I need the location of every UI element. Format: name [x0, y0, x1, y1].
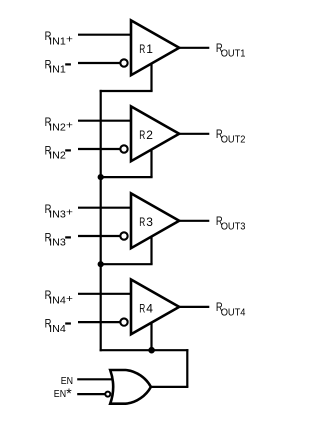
svg-text:IN3: IN3	[49, 237, 66, 249]
label RIN4-	[45, 316, 71, 334]
wire enable stub R1	[150, 64, 152, 91]
junction dot enable R3	[98, 261, 104, 267]
wire gate output vertical	[186, 349, 188, 387]
svg-text:OUT4: OUT4	[221, 306, 246, 318]
svg-text:+: +	[66, 207, 73, 219]
inverting input bubble R4	[120, 318, 127, 325]
wire RIN1+ input	[78, 34, 132, 36]
wire enable stub R3	[150, 237, 152, 265]
label ROUT4	[216, 300, 246, 318]
svg-text:OUT2: OUT2	[221, 133, 246, 145]
svg-text:IN1: IN1	[49, 35, 66, 47]
svg-text:+: +	[66, 34, 73, 46]
label R3	[139, 215, 153, 229]
gate input bubble EN*	[105, 392, 110, 397]
wire enable stub R4	[150, 323, 152, 351]
label ROUT3	[216, 214, 246, 232]
label EN*	[54, 385, 72, 401]
wire ROUT1 output	[179, 47, 209, 49]
receiver R1 triangle	[131, 20, 179, 75]
svg-text:2: 2	[146, 128, 153, 142]
junction dot enable R2	[98, 174, 104, 180]
wire enable horizontal R1	[100, 90, 153, 92]
receiver R2 triangle	[131, 106, 179, 161]
svg-text:+: +	[66, 293, 73, 305]
svg-text:IN4: IN4	[49, 294, 66, 306]
label RIN2+	[45, 115, 73, 133]
inverting input bubble R3	[120, 232, 127, 239]
wire RIN1- input	[78, 62, 121, 64]
label RIN3-	[45, 230, 71, 248]
junction dot enable R4	[148, 347, 155, 354]
wire RIN3- input	[78, 235, 121, 237]
svg-text:+: +	[66, 120, 73, 132]
label R4	[139, 301, 153, 315]
svg-text:IN2: IN2	[49, 150, 66, 162]
svg-text:R: R	[139, 42, 145, 56]
wire RIN2+ input	[78, 120, 132, 122]
svg-text:R: R	[139, 215, 145, 229]
wire RIN3+ input	[78, 207, 132, 209]
wire enable horizontal R4	[100, 349, 189, 351]
svg-text:*: *	[66, 385, 72, 401]
svg-text:IN3: IN3	[49, 208, 66, 220]
svg-text:IN2: IN2	[49, 121, 66, 133]
svg-text:4: 4	[146, 301, 153, 315]
label RIN2-	[45, 143, 71, 161]
label RIN3+	[45, 202, 73, 220]
wire RIN2- input	[78, 148, 121, 150]
svg-text:OUT3: OUT3	[221, 220, 246, 232]
label R1	[139, 42, 153, 56]
wire enable stub R2	[150, 150, 152, 178]
svg-text:IN4: IN4	[49, 323, 66, 335]
label R2	[139, 128, 153, 142]
svg-text:EN: EN	[54, 389, 66, 400]
wire ROUT4 output	[179, 306, 209, 308]
svg-text:1: 1	[146, 42, 153, 56]
svg-text:IN1: IN1	[49, 64, 66, 76]
wire EN* input	[77, 393, 105, 395]
receiver R4 triangle	[131, 280, 179, 335]
label ROUT2	[216, 127, 246, 145]
wire RIN4- input	[78, 321, 121, 323]
svg-text:R: R	[139, 301, 145, 315]
wire enable bus vertical	[100, 90, 102, 351]
wire enable horizontal R3	[100, 263, 153, 265]
receiver R3 triangle	[131, 193, 179, 248]
inverting input bubble R2	[120, 145, 127, 152]
wire RIN4+ input	[78, 293, 132, 295]
label RIN1-	[45, 57, 71, 75]
svg-text:3: 3	[146, 215, 153, 229]
wire gate output horizontal	[150, 386, 188, 388]
svg-text:R: R	[139, 128, 145, 142]
enable OR gate U1	[110, 370, 151, 404]
label ROUT1	[216, 41, 246, 59]
wire EN input	[77, 378, 113, 380]
inverting input bubble R1	[120, 59, 127, 66]
wire ROUT3 output	[179, 220, 209, 222]
label RIN4+	[45, 288, 73, 306]
wire ROUT2 output	[179, 133, 209, 135]
svg-text:OUT1: OUT1	[221, 47, 246, 59]
wire enable horizontal R2	[100, 176, 153, 178]
label RIN1+	[45, 29, 73, 47]
